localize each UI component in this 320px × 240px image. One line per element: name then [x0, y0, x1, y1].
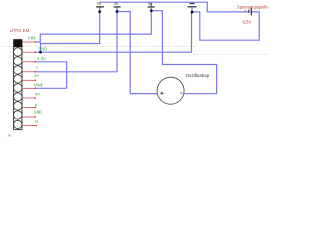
- svg-text:X: X: [35, 104, 38, 108]
- pin 8 X stub: [22, 107, 36, 109]
- wire net VIN: connector pin1 up and right to node Vc: [36, 11, 151, 42]
- svg-text:RX: RX: [35, 93, 40, 97]
- power symbol Va: [96, 1, 104, 7]
- pin name labels: [28, 36, 48, 125]
- wire top rail: node Va to battery plus terminal: [100, 2, 249, 12]
- junction node Va: [98, 10, 101, 13]
- power symbol Vb: [114, 2, 121, 7]
- pin 5 8Y stub: [22, 79, 36, 81]
- junction node 0V: [191, 11, 194, 14]
- svg-text:8Y: 8Y: [35, 74, 40, 78]
- pin 9 GND stub: [22, 116, 36, 118]
- power symbol 0V double bar: [188, 4, 197, 12]
- pin 1 VIN stub: [22, 41, 36, 43]
- connector J1 LPRS EM body: [14, 40, 22, 130]
- svg-text:Y: Y: [36, 66, 39, 70]
- pin 7 RX stub: [22, 97, 36, 99]
- svg-text:Vref: Vref: [34, 83, 44, 88]
- wire connector pin2 GND long horizontal up to 0V node: [36, 12, 192, 52]
- junction node GND pin2: [39, 51, 42, 54]
- wire connector pin4 right then up to node Vb: [36, 7, 117, 72]
- svg-text:Oszilloskop: Oszilloskop: [186, 73, 210, 78]
- svg-text:ST: ST: [35, 120, 40, 124]
- svg-text:Vc: Vc: [148, 2, 153, 6]
- wire node Vc right branch down and across to oscilloscope minus input: [151, 11, 216, 94]
- svg-text:6,5V: 6,5V: [243, 19, 252, 24]
- wire battery minus loop down and back to 0V node: [192, 12, 259, 40]
- junction node Vc: [150, 9, 153, 12]
- junction node Vb: [116, 10, 119, 13]
- oscilloscope M1: [157, 77, 184, 104]
- dashed boundary line right: [193, 53, 270, 55]
- svg-text:Spannungsquelle: Spannungsquelle: [237, 5, 269, 10]
- wire node Vb right branch down to oscilloscope plus input: [117, 12, 157, 94]
- wire connector pin3 3.3V right then down to Vref row: [36, 62, 67, 89]
- dashed boundary line left: [1, 45, 196, 47]
- svg-text:VIN: VIN: [28, 36, 36, 41]
- pin 6 Vref stub: [22, 87, 36, 89]
- wire node Va down then left to GND junction: [41, 7, 100, 52]
- power symbol Vc: [148, 2, 155, 11]
- pin 2 GND stub: [22, 51, 36, 53]
- svg-text:Vb: Vb: [114, 2, 119, 6]
- svg-text:GND: GND: [34, 110, 42, 115]
- wire connector pin6 Vref: [36, 87, 67, 89]
- pin 10 ST stub: [22, 125, 37, 127]
- battery BT1 Spannungsquelle: [244, 8, 251, 16]
- pin 3 3.3V stub: [22, 61, 36, 63]
- svg-text:LPRS EM: LPRS EM: [10, 28, 30, 33]
- pin 4 Y stub: [22, 71, 36, 73]
- svg-text:GND: GND: [38, 46, 47, 51]
- svg-text:3.3V: 3.3V: [37, 56, 46, 61]
